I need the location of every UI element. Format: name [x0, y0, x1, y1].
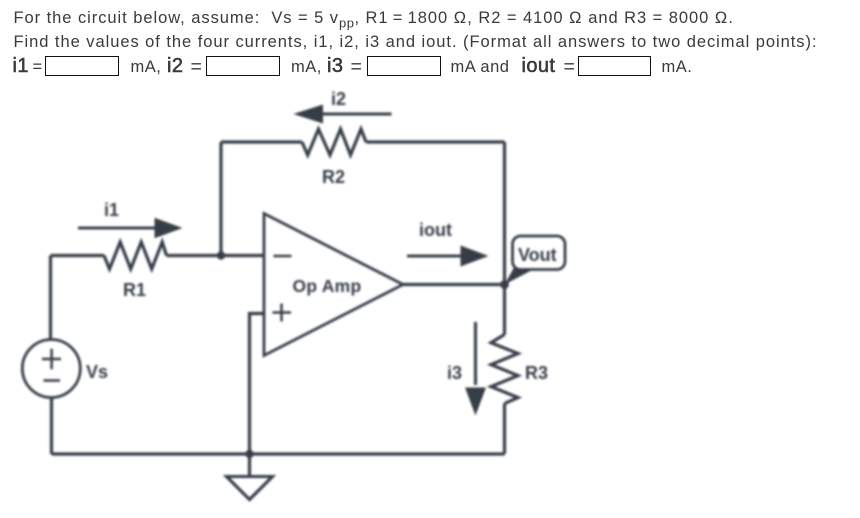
- svg-text:i1: i1: [104, 200, 119, 220]
- current arrow i3 (pointing down): [465, 322, 486, 416]
- node: output junction dot: [500, 280, 509, 289]
- current arrow i1 (pointing right): [78, 218, 183, 238]
- answer row: equals: [33, 58, 43, 77]
- wire: top-left vertical (R2 left lead down to inverting node): [219, 142, 222, 256]
- op-amp minus input sign: [274, 255, 292, 258]
- source minus sign: [44, 379, 61, 381]
- answer row: equals: [191, 56, 202, 79]
- source plus sign: [42, 349, 61, 369]
- answer input box i3: [367, 56, 441, 76]
- wire: bottom ground rail: [52, 452, 505, 455]
- problem statement line 1: [14, 9, 734, 30]
- ground symbol: [227, 477, 273, 500]
- current arrow i2 (pointing left): [293, 105, 391, 124]
- answer input box iout: [578, 56, 652, 76]
- wire: R1 right lead to op-amp: [167, 254, 265, 257]
- wire: right vertical from top rail to output node: [503, 142, 506, 285]
- problem statement line 2: [14, 33, 818, 52]
- wire: ground stub: [248, 454, 251, 477]
- answer row: mA,: [131, 58, 162, 77]
- svg-text:i2: i2: [331, 89, 346, 109]
- current arrow iout (pointing right): [407, 246, 489, 267]
- svg-text:iout: iout: [419, 220, 452, 240]
- resistor R3: [491, 335, 518, 404]
- answer row: variable i1: [13, 55, 29, 78]
- resistor R1: [104, 242, 167, 269]
- answer input box i1: [45, 56, 119, 76]
- svg-text:Vs: Vs: [86, 362, 108, 382]
- answer row: mA and: [451, 58, 510, 77]
- resistor R2: [302, 129, 366, 155]
- wire: output node down to R3: [503, 285, 506, 335]
- answer row: variable i2: [167, 55, 183, 78]
- wire: left vertical from R1 down to source: [49, 256, 52, 341]
- node: inverting input junction dot: [217, 251, 225, 259]
- wire: op-amp output to right rail: [403, 283, 505, 286]
- svg-text:R1: R1: [123, 280, 146, 300]
- op-amp U1: [264, 214, 403, 356]
- svg-text:i3: i3: [447, 363, 462, 383]
- wire: R3 bottom to ground rail: [503, 404, 506, 455]
- svg-text:R3: R3: [525, 363, 548, 383]
- wire: top horizontal left segment: [221, 140, 302, 143]
- answer row: trailing mA.: [662, 58, 693, 77]
- wire: non-inverting input path: [250, 314, 265, 455]
- answer row: equals: [564, 56, 575, 79]
- answer row: mA,: [291, 58, 322, 77]
- svg-text:R2: R2: [322, 167, 345, 187]
- svg-text:Vout: Vout: [518, 245, 557, 265]
- answer row: equals: [351, 56, 362, 79]
- wire: R1 left lead: [51, 254, 105, 257]
- answer input box i2: [206, 56, 280, 76]
- Vout callout tail: [505, 268, 538, 285]
- op-amp plus input sign: [273, 304, 292, 322]
- svg-text:Op Amp: Op Amp: [293, 276, 362, 296]
- answer row: variable iout: [522, 55, 556, 78]
- node: ground junction dot: [245, 450, 253, 458]
- voltage source Vs circle: [22, 340, 80, 398]
- Vout callout box: [513, 236, 566, 270]
- wire: top horizontal right segment: [366, 140, 505, 143]
- answer row: variable i3: [327, 55, 343, 78]
- wire: source bottom to ground rail: [50, 397, 53, 454]
